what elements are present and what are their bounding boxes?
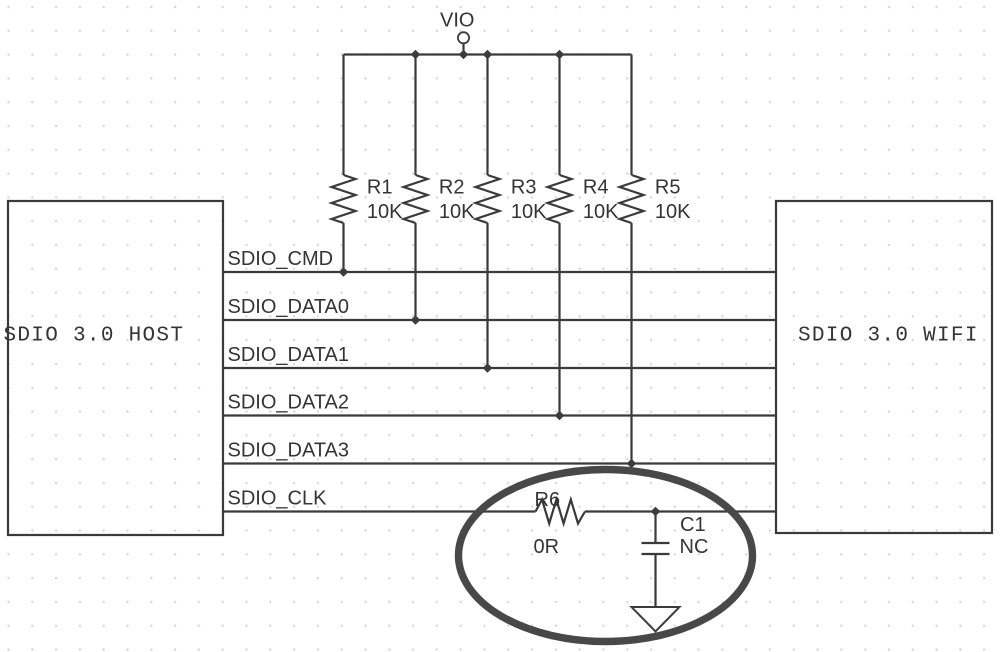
svg-text:C1: C1 — [680, 514, 706, 536]
svg-text:SDIO_CLK: SDIO_CLK — [228, 488, 328, 510]
svg-text:SDIO 3.0 WIFI: SDIO 3.0 WIFI — [798, 325, 979, 348]
svg-text:10K: 10K — [439, 201, 475, 223]
svg-text:R2: R2 — [439, 177, 465, 199]
svg-text:R1: R1 — [367, 177, 393, 199]
svg-text:R4: R4 — [583, 177, 609, 199]
svg-text:R6: R6 — [535, 489, 561, 511]
svg-text:10K: 10K — [367, 201, 403, 223]
svg-text:VIO: VIO — [440, 10, 474, 32]
svg-text:SDIO_DATA2: SDIO_DATA2 — [228, 392, 350, 414]
svg-text:10K: 10K — [511, 201, 547, 223]
svg-text:SDIO 3.0 HOST: SDIO 3.0 HOST — [4, 325, 185, 348]
svg-text:R3: R3 — [511, 177, 537, 199]
svg-text:R5: R5 — [655, 177, 681, 199]
svg-text:NC: NC — [680, 536, 709, 558]
svg-text:10K: 10K — [583, 201, 619, 223]
svg-text:SDIO_CMD: SDIO_CMD — [228, 248, 334, 270]
svg-text:SDIO_DATA0: SDIO_DATA0 — [228, 296, 350, 318]
svg-text:SDIO_DATA1: SDIO_DATA1 — [228, 344, 350, 366]
svg-text:SDIO_DATA3: SDIO_DATA3 — [228, 440, 350, 462]
svg-text:0R: 0R — [534, 536, 560, 558]
svg-text:10K: 10K — [655, 201, 691, 223]
